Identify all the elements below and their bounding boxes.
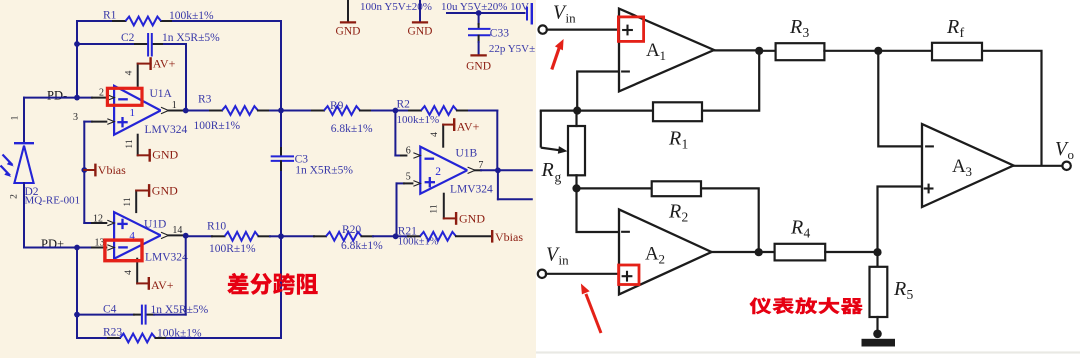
wire PD+ column vertical — [76, 248, 78, 339]
svg-text:R: R — [893, 278, 906, 300]
svg-text:4: 4 — [804, 226, 811, 241]
wire to A3 non-inverting — [878, 187, 923, 253]
svg-text:1: 1 — [682, 137, 689, 152]
svg-text:GND: GND — [466, 60, 491, 72]
svg-text:100k±1%: 100k±1% — [157, 328, 202, 340]
svg-text:LMV324: LMV324 — [145, 124, 188, 136]
svg-text:LMV324: LMV324 — [450, 184, 493, 196]
svg-text:in: in — [559, 252, 570, 267]
svg-text:100k±1%: 100k±1% — [169, 10, 214, 22]
svg-text:R10: R10 — [207, 221, 226, 233]
op-amp A2 — [619, 209, 712, 294]
junction A1 output — [755, 47, 763, 55]
page edge line — [536, 351, 1080, 353]
wire Vin to A2 — [546, 273, 619, 275]
svg-text:2: 2 — [435, 166, 441, 178]
resistor Rf — [878, 50, 932, 52]
resistor R4 — [759, 251, 775, 253]
wire A3 inverting input — [878, 51, 922, 147]
svg-text:100R±1%: 100R±1% — [209, 243, 256, 255]
junction R3/Rf/A3- — [874, 47, 882, 55]
junction R4/R5 — [873, 248, 881, 256]
svg-text:12: 12 — [93, 214, 103, 225]
op-amp A1 — [619, 9, 714, 92]
svg-text:R9: R9 — [330, 100, 344, 112]
svg-text:o: o — [1068, 147, 1075, 162]
svg-text:2: 2 — [10, 194, 20, 199]
svg-text:11: 11 — [123, 197, 133, 206]
U1B pin 4 — [442, 125, 444, 147]
resistor R23 — [77, 337, 108, 339]
ground symbol — [873, 330, 882, 339]
svg-text:6.8k±1%: 6.8k±1% — [341, 240, 383, 252]
wire R2 to A2 output node — [701, 188, 759, 252]
wire R1 feedback top rail — [77, 20, 113, 22]
svg-text:Vbias: Vbias — [98, 163, 126, 177]
junction C2 left — [74, 41, 80, 47]
junction R3/R9/C3 — [278, 108, 284, 114]
svg-text:R1: R1 — [103, 10, 117, 22]
svg-text:PD+: PD+ — [41, 237, 64, 251]
svg-text:1: 1 — [130, 107, 136, 119]
U1B pin 6 — [413, 153, 420, 159]
svg-text:R: R — [668, 201, 681, 223]
resistor R5 — [876, 252, 878, 267]
svg-text:1n X5R±5%: 1n X5R±5% — [151, 304, 209, 316]
U1A pin 3 — [84, 121, 92, 123]
svg-text:100R±1%: 100R±1% — [194, 120, 241, 132]
wire Vin to A1 — [547, 29, 619, 31]
svg-text:GND: GND — [408, 25, 433, 37]
svg-text:R: R — [668, 128, 681, 150]
svg-text:R23: R23 — [103, 327, 122, 339]
svg-text:R: R — [789, 16, 802, 38]
capacitor C3 — [280, 148, 282, 156]
svg-text:AV+: AV+ — [151, 278, 174, 292]
svg-text:A: A — [952, 156, 966, 177]
svg-text:5: 5 — [406, 171, 411, 182]
svg-text:GND: GND — [152, 147, 178, 161]
svg-text:3: 3 — [73, 112, 78, 123]
resistor R3 (right) — [759, 50, 775, 52]
svg-text:R3: R3 — [198, 94, 212, 106]
svg-text:5: 5 — [907, 287, 914, 302]
U1D pin 13 — [107, 245, 114, 251]
svg-text:GND: GND — [336, 25, 361, 37]
svg-text:11: 11 — [125, 139, 135, 148]
svg-text:2: 2 — [99, 88, 104, 99]
op-amp U1A — [114, 86, 161, 135]
terminal Vo — [1062, 162, 1070, 170]
svg-text:13: 13 — [95, 238, 105, 249]
op-amp U1D — [114, 212, 161, 259]
potentiometer Rg — [540, 111, 542, 148]
wire pin3 to pin12 vertical — [83, 122, 85, 223]
wire A2 output — [712, 251, 759, 253]
svg-text:6.8k±1%: 6.8k±1% — [331, 123, 373, 135]
wire Rg node to R1 — [541, 109, 653, 111]
svg-text:1: 1 — [11, 115, 21, 120]
svg-text:U1A: U1A — [150, 88, 173, 100]
power AV+ U1D — [137, 282, 149, 284]
svg-text:C4: C4 — [103, 304, 117, 316]
svg-text:1: 1 — [172, 100, 177, 111]
power AV+ U1B — [443, 124, 454, 126]
capacitor C4 — [77, 314, 134, 316]
U1B output pin 7 — [468, 167, 476, 173]
U1A pin 2 — [107, 95, 114, 101]
svg-text:GND: GND — [152, 184, 178, 198]
svg-text:in: in — [566, 10, 577, 25]
op-amp A3 — [922, 124, 1014, 207]
svg-text:C2: C2 — [121, 32, 135, 44]
svg-text:GND: GND — [459, 212, 485, 226]
svg-text:A: A — [645, 244, 659, 265]
red arrow upper Vin — [552, 48, 560, 70]
svg-text:6: 6 — [406, 146, 411, 157]
wire diode bottom vertical — [23, 183, 25, 248]
wire output branch down — [497, 170, 499, 199]
U1B pin 11 — [443, 194, 445, 219]
svg-text:C33: C33 — [490, 27, 509, 39]
svg-text:U1B: U1B — [456, 148, 478, 160]
U1D pin 4 — [136, 259, 138, 284]
wire U1B output to edge — [498, 169, 532, 171]
power GND top 1 — [347, 0, 349, 22]
svg-text:2: 2 — [659, 252, 666, 267]
resistor R1 (right) — [653, 102, 702, 121]
svg-text:11: 11 — [430, 204, 440, 213]
svg-text:R: R — [790, 217, 803, 239]
wire R2 right drop to U1B output — [496, 111, 498, 171]
capacitor at crop edge — [526, 7, 528, 21]
wire R1 to A1 output node — [702, 51, 759, 111]
svg-text:R2: R2 — [397, 99, 411, 111]
svg-text:PD-: PD- — [47, 89, 67, 103]
wire C33 top rail — [447, 12, 525, 14]
svg-text:U1D: U1D — [144, 218, 166, 230]
terminal Vin lower — [538, 270, 546, 278]
resistor R10 — [186, 235, 212, 237]
wire pin6 vertical — [394, 111, 396, 156]
svg-text:100k±1%: 100k±1% — [397, 114, 440, 126]
junction Rg bottom — [572, 184, 580, 192]
wire center column lower vertical — [280, 236, 282, 338]
wire left vertical node PD- column — [76, 21, 78, 98]
svg-text:4: 4 — [124, 270, 134, 275]
wire A1 inverting input — [577, 72, 619, 111]
wire A3 output — [1014, 165, 1063, 167]
svg-text:g: g — [555, 170, 562, 185]
power GND C33 — [472, 54, 486, 56]
power GND U1A — [138, 154, 150, 156]
U1D output pin 14 — [161, 232, 169, 238]
wire diode top vertical — [23, 98, 25, 144]
svg-text:f: f — [960, 26, 965, 41]
svg-text:22p Y5V±: 22p Y5V± — [489, 43, 535, 55]
wire PD- row — [24, 97, 92, 99]
resistor R9 — [281, 110, 312, 112]
red box A1 non-inverting input — [618, 17, 643, 42]
svg-text:AV+: AV+ — [153, 57, 176, 71]
capacitor C2 — [77, 43, 135, 45]
svg-text:R: R — [541, 159, 554, 181]
red arrow lower Vin — [586, 294, 601, 333]
junction U1A output — [183, 108, 189, 114]
terminal Vin upper — [539, 25, 547, 33]
wire A1 output — [714, 49, 759, 51]
svg-text:2: 2 — [682, 210, 689, 225]
junction center column — [278, 233, 284, 239]
U1B pin 5 — [396, 183, 398, 236]
svg-text:MQ-RE-001: MQ-RE-001 — [25, 195, 81, 207]
power AV+ U1A — [138, 63, 151, 65]
wire C2 right drop to U1A output — [185, 44, 187, 111]
U1A pin 4 — [137, 64, 139, 86]
svg-text:14: 14 — [172, 225, 182, 236]
svg-text:4: 4 — [430, 132, 440, 137]
power GND U1B — [444, 217, 456, 219]
junction pin6 tap — [393, 108, 399, 114]
svg-text:100n Y5V±20%: 100n Y5V±20% — [360, 1, 432, 13]
label 差分跨阻 — [227, 273, 317, 295]
svg-text:1n X5R±5%: 1n X5R±5% — [162, 32, 220, 44]
red box A2 non-inverting input — [619, 265, 639, 285]
wire A2 inverting input — [577, 188, 620, 232]
op-amp U1B — [420, 147, 467, 194]
wire U1D output vertical — [185, 236, 187, 315]
resistor R2 (right) — [577, 187, 652, 189]
svg-text:4: 4 — [125, 70, 135, 75]
power GND U1D — [136, 190, 149, 192]
resistor R1 — [126, 17, 162, 26]
svg-text:1: 1 — [660, 48, 667, 63]
resistor R20 — [281, 235, 314, 237]
svg-text:10u Y5V±20% 10V: 10u Y5V±20% 10V — [441, 1, 529, 13]
junction pin5 tap — [393, 233, 399, 239]
wire PD+ row — [24, 247, 92, 249]
junction Rg top — [573, 107, 581, 115]
svg-text:100k±1%: 100k±1% — [398, 237, 439, 248]
red box U1D inverting input — [105, 240, 142, 261]
svg-text:Vbias: Vbias — [495, 230, 523, 244]
U1A output pin 1 — [161, 107, 169, 113]
svg-text:R: R — [946, 16, 959, 38]
svg-text:R20: R20 — [342, 224, 361, 236]
capacitor C33 — [478, 13, 480, 24]
svg-text:AV+: AV+ — [457, 119, 480, 133]
power Vbias tap — [84, 169, 95, 171]
power Vbias right — [491, 231, 493, 241]
svg-text:1n X5R±5%: 1n X5R±5% — [295, 165, 353, 177]
svg-text:7: 7 — [478, 160, 483, 171]
resistor R2 — [395, 110, 409, 112]
U1A pin 11 — [137, 135, 139, 156]
power GND top 2 — [419, 0, 421, 22]
junction A2 output — [755, 248, 763, 256]
photodiode D2 MQ-RE-001 — [14, 142, 34, 144]
resistor R3 — [186, 110, 210, 112]
resistor R21 — [396, 235, 408, 237]
svg-text:A: A — [646, 40, 660, 61]
wire right vertical R1 to C3 — [280, 21, 282, 148]
U1D pin 11 — [135, 191, 137, 213]
svg-text:LMV324: LMV324 — [145, 252, 188, 264]
svg-text:3: 3 — [803, 25, 810, 40]
svg-text:3: 3 — [966, 164, 973, 179]
wire Rf to output — [982, 51, 1042, 166]
label 仪表放大器 — [749, 297, 863, 314]
U1D pin 12 — [84, 222, 92, 224]
red box U1A inverting input — [107, 88, 142, 105]
